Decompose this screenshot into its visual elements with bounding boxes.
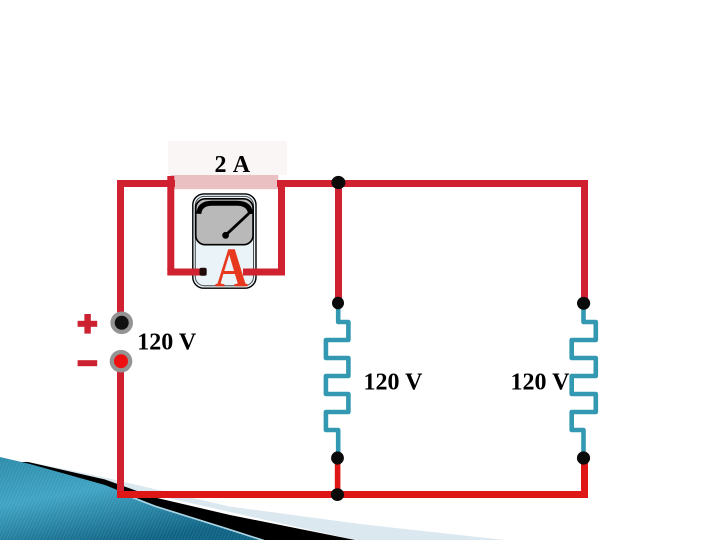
svg-text:120 V: 120 V (364, 370, 424, 396)
svg-text:120 V: 120 V (137, 330, 197, 356)
svg-text:120 V: 120 V (511, 370, 571, 396)
svg-text:A: A (215, 237, 248, 299)
svg-text:2 A: 2 A (215, 152, 251, 178)
